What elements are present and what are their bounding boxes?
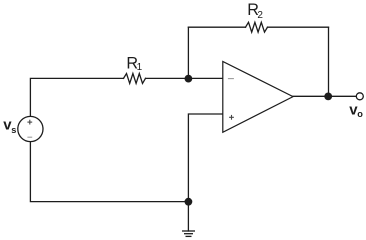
ground [182, 231, 195, 236]
minus sign of source [27, 136, 32, 138]
svg-text:1: 1 [137, 62, 143, 73]
wire: feedback top rail right of R2 [268, 26, 329, 28]
svg-text:s: s [11, 125, 16, 135]
op-amp U1 [223, 62, 293, 133]
wire: op-amp output to terminal [293, 95, 356, 97]
wire: R1 to op-amp inverting input [146, 77, 223, 79]
op-amp inverting mark [228, 78, 234, 80]
node: inverting input junction [185, 75, 193, 83]
wire: feedback top rail left of R2 [188, 26, 245, 28]
voltage source Vs [18, 116, 43, 141]
resistor R2 [246, 22, 268, 32]
terminal: output open circle [356, 93, 363, 100]
wire: top rail left segment (source to R1) [30, 78, 123, 116]
resistor R1 [124, 74, 146, 84]
node: ground junction [185, 198, 193, 206]
wire: feedback left vertical [187, 27, 189, 78]
wire: feedback right vertical [328, 27, 330, 96]
wire: non-inverting input [188, 114, 222, 231]
plus sign of source [27, 120, 32, 125]
svg-text:2: 2 [257, 10, 263, 21]
wire: bottom rail [30, 142, 188, 202]
node: output junction [324, 93, 332, 101]
svg-text:o: o [357, 109, 363, 119]
op-amp non-inverting mark [229, 115, 234, 120]
